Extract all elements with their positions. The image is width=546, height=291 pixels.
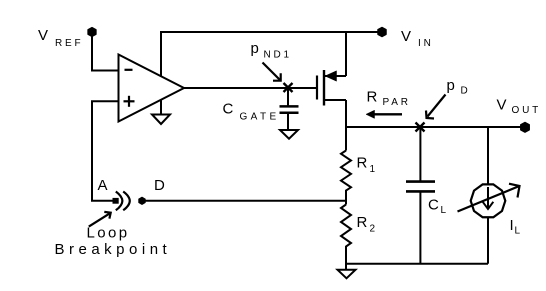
- svg-text:OUT: OUT: [512, 105, 542, 116]
- wire IL top: [487, 127, 489, 185]
- svg-text:PAR: PAR: [383, 97, 411, 108]
- op-amp U1: [119, 55, 185, 122]
- svg-text:D: D: [461, 86, 468, 97]
- wire op-amp positive supply to top rail: [160, 32, 162, 77]
- svg-text:C: C: [223, 100, 234, 117]
- label CGATE: [223, 100, 280, 122]
- svg-text:L: L: [515, 226, 521, 237]
- svg-text:2: 2: [370, 224, 376, 235]
- wire CGATE to ground: [287, 113, 289, 130]
- current source IL: [471, 184, 506, 217]
- svg-text:V: V: [401, 28, 411, 45]
- resistor R1: [341, 151, 351, 205]
- wire gate to CGATE: [287, 88, 289, 106]
- node A: [113, 198, 119, 204]
- svg-text:A: A: [98, 177, 108, 194]
- svg-text:I: I: [510, 217, 514, 234]
- node VREF terminal: [88, 28, 96, 37]
- capacitor CGATE: [280, 106, 299, 112]
- arrow pD to X: [426, 95, 446, 119]
- label R2: [357, 214, 376, 235]
- arrow loop breakpoint: [89, 212, 111, 227]
- ground main: [338, 270, 356, 279]
- arrow RPAR pointing left: [366, 110, 402, 118]
- svg-text:V: V: [38, 27, 48, 44]
- wire op-amp negative supply: [160, 101, 162, 115]
- svg-text:REF: REF: [55, 38, 83, 49]
- wire CL top: [419, 127, 421, 181]
- label IL: [510, 217, 521, 237]
- ground op-amp: [152, 115, 170, 125]
- wire bottom rail: [346, 263, 488, 265]
- svg-text:1: 1: [370, 164, 376, 175]
- wire IL bottom: [487, 218, 489, 264]
- wire op-amp noninverting input to node A: [92, 101, 120, 200]
- node breakpoint X pND1: [284, 83, 293, 92]
- label VIN: [401, 28, 434, 49]
- node D: [139, 197, 145, 204]
- label Loop Breakpoint: [55, 225, 172, 259]
- node VOUT terminal: [521, 123, 529, 133]
- transistor M1 pass PMOS: [317, 70, 346, 106]
- svg-text:L: L: [441, 205, 447, 216]
- label R1: [357, 155, 376, 176]
- label pD: [447, 77, 468, 97]
- ground CGATE: [280, 130, 298, 139]
- wire M1 drain down through output rail to R1: [345, 100, 347, 151]
- node breakpoint X pD: [416, 123, 425, 132]
- svg-text:GATE: GATE: [240, 111, 280, 122]
- label VOUT: [497, 96, 542, 116]
- arrow IL variable: [458, 184, 520, 212]
- wire VREF to op-amp inverting input: [92, 34, 120, 71]
- label pND1: [251, 40, 292, 61]
- wire CL bottom: [419, 191, 421, 263]
- resistor R2: [341, 205, 351, 270]
- svg-text:ND1: ND1: [264, 50, 292, 61]
- label RPAR: [367, 89, 411, 108]
- breakpoint arcs: [116, 192, 130, 211]
- capacitor CL: [406, 182, 435, 192]
- node VIN terminal: [378, 28, 386, 37]
- wire node D to feedback tap: [145, 200, 346, 202]
- wire top rail: [160, 31, 382, 33]
- svg-text:D: D: [154, 177, 165, 194]
- svg-text:IN: IN: [418, 38, 434, 49]
- svg-text:R: R: [367, 89, 378, 106]
- svg-text:Loop: Loop: [87, 225, 130, 242]
- label VREF: [38, 27, 83, 49]
- wire output rail: [346, 126, 523, 128]
- svg-text:p: p: [447, 77, 455, 94]
- svg-text:Breakpoint: Breakpoint: [55, 241, 172, 258]
- label CL: [428, 196, 447, 216]
- svg-text:V: V: [497, 96, 507, 113]
- wire M1 source to top rail: [345, 31, 347, 76]
- wire op-amp output to MOSFET gate: [184, 87, 317, 89]
- arrow pND1 to X: [263, 63, 281, 81]
- svg-text:C: C: [428, 196, 439, 213]
- svg-text:p: p: [251, 40, 259, 57]
- svg-text:R: R: [357, 214, 368, 231]
- svg-text:R: R: [357, 155, 368, 172]
